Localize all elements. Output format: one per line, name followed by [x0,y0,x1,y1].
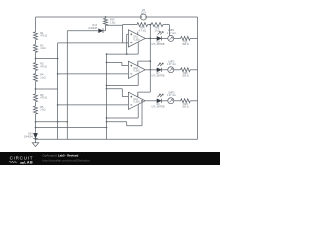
wire led3 to lamp3 [162,100,168,102]
diode D13 [99,29,103,33]
svg-text:12 V: 12 V [141,11,147,15]
wire bottom rail [36,138,198,140]
wire lamp3 to R03 [174,100,181,102]
wire op1 inverting input [58,42,129,44]
wire divider seg8 [35,128,37,133]
svg-text:OA1: OA1 [133,36,138,39]
node bus1 tapC [57,121,59,123]
svg-text:OA3: OA3 [133,98,138,101]
wire lamp2 to R02 [174,69,181,71]
resistor R5 470 Ω (divider) [34,94,38,102]
wire diode to bus2 [67,30,98,32]
svg-text:OpAmped | Lab5 - Revised: OpAmped | Lab5 - Revised [43,154,79,158]
svg-text:390 Ω: 390 Ω [182,106,189,109]
wire R02 to rail [190,69,197,71]
wire op1 output [145,37,157,39]
resistor R3 470 Ω (divider) [34,63,38,71]
svg-text:390 Ω: 390 Ω [182,75,189,78]
svg-text:1.67 mA: 1.67 mA [167,94,176,97]
svg-text:1N4448: 1N4448 [88,27,97,30]
wire op2 inverting input [58,73,129,75]
wire divider top [35,17,37,32]
wire cascade 1-2 [138,38,151,69]
op-amp OA1 [128,30,145,47]
resistor R05 1k (feedback b) [151,23,163,27]
voltage source V8 [140,14,146,20]
wire node X down [122,25,124,43]
node lower rail spine [35,127,37,129]
svg-text:http://circuitlab.com/circuit/: http://circuitlab.com/circuit/29mhpdcx [43,158,91,162]
svg-text:OA2: OA2 [133,67,138,70]
wire top rail right [146,16,197,18]
wire op3 output [145,100,157,102]
node bus1 op2minus [57,73,59,75]
wire op2 output [145,69,157,71]
svg-text:470 Ω: 470 Ω [40,96,47,100]
ground [35,139,37,143]
svg-text:UTL-3BTRB: UTL-3BTRB [151,75,164,78]
op-amp OA3 [128,92,145,109]
node op1 plus join [126,53,128,55]
wire cascade 2-3 [138,70,151,97]
node cascade vplus2 [149,60,151,62]
svg-text:4.7 kΩ: 4.7 kΩ [139,29,146,32]
led D8 [157,36,161,40]
lamp LMP1 [168,35,174,41]
node bus1 top corner [57,58,59,60]
led D7 [157,68,161,72]
wire tap C rail [36,121,68,123]
node cascade3 [149,69,151,71]
node feedback mid [149,24,151,26]
node bus3 lower rail [106,127,108,129]
node tapA bus [35,58,37,60]
resistor R1 470 Ω (divider) [34,32,38,40]
resistor R4 1 kΩ (divider) [34,74,38,82]
led D6 [157,99,161,103]
resistor R02 390 [181,68,191,72]
svg-text:UTL-3BTRB: UTL-3BTRB [151,43,164,46]
wire Ra-Rb link [148,24,151,26]
wire op1 noninverting input [127,34,129,54]
wire divider seg7 [35,122,37,128]
wire node X to Ra [123,24,138,26]
svg-text:1 kΩ: 1 kΩ [40,108,45,112]
resistor R07 1k (reference) [104,18,108,25]
wire right rail [197,17,199,139]
svg-text:1 kΩ: 1 kΩ [154,29,159,32]
svg-text:TL081: TL081 [133,71,140,73]
wire op3 vminus [107,105,139,119]
CircuitLab logo [9,156,34,165]
wire top rail left [36,16,141,18]
wire led1 to lamp1 [162,37,168,39]
wire R03 to rail [190,100,197,102]
wire tap B [36,88,58,90]
node bus2 tapC [66,121,68,123]
svg-text:470 Ω: 470 Ω [40,64,47,68]
wire divider seg4 [35,82,37,94]
wire op3 inverting input [58,104,129,106]
wire op1 vminus [107,42,139,54]
node bus3 op2vm [106,85,108,87]
wire diode to rail [35,138,37,141]
wire led2 to lamp2 [162,69,168,71]
wire bus 2 [66,31,68,140]
node top rail R07 [105,16,107,18]
wire R07 bottom to diode [103,25,106,30]
wire R07 bottom to node X [106,24,123,26]
node op3out [141,100,143,102]
node bus1 op3minus [57,104,59,106]
node row1 fb [149,38,151,40]
svg-text:1 kΩ: 1 kΩ [110,20,115,24]
svg-text:▬LAB: ▬LAB [20,161,33,165]
svg-text:TL081: TL081 [133,102,140,104]
wire divider seg6 [35,114,37,122]
wire feedback mid drop [149,25,151,39]
wire divider seg1 [35,40,37,45]
svg-text:1 kΩ: 1 kΩ [40,75,45,79]
resistor R04 4.7k (feedback a) [137,23,148,27]
wire divider seg3 [35,71,37,74]
wire bus 3 [106,54,108,139]
node tapC spine [35,121,37,123]
svg-text:1N4004: 1N4004 [24,135,33,138]
node bus3 z [106,121,108,123]
node bus3 op3plus [106,88,108,90]
wire Rb to lamp top [163,25,169,36]
svg-text:1.67 mA: 1.67 mA [167,32,176,35]
op-amp OA2 [128,61,145,78]
wire R01 to rail [190,37,197,39]
resistor R2 1 kΩ (divider) [34,44,38,52]
wire op2 noninverting path [107,62,129,65]
lamp LMP3 [168,98,174,104]
resistor R03 390 [181,99,191,103]
wire bus 1 [57,43,59,139]
node bus3 top [106,53,108,55]
resistor R6 1 kΩ (divider) [34,106,38,114]
svg-text:470 Ω: 470 Ω [40,34,47,38]
wire R07 top stub [105,17,107,18]
svg-text:TL081: TL081 [133,39,140,41]
lamp LMP2 [168,67,174,73]
wire op3 out return [107,101,143,126]
diode D14 (to ground) [33,133,37,138]
wire lower rail [36,127,107,129]
node bus3 op2plus [106,62,108,64]
wire divider seg2 [35,52,37,62]
node bus3 op3vm [106,117,108,119]
footer bar [0,152,220,165]
node rail gnd [35,138,37,140]
wire op3 noninverting path [107,89,129,97]
wire op2 vminus [107,74,139,86]
svg-text:1.67 mA: 1.67 mA [167,63,176,66]
wire tap A [36,58,58,60]
wire lamp1 to R01 [174,37,181,39]
wire divider seg5 [35,102,37,106]
resistor R01 390 [181,36,191,40]
svg-text:UTL-3BTRB: UTL-3BTRB [151,106,164,109]
svg-text:1 kΩ: 1 kΩ [40,46,45,50]
svg-text:390 Ω: 390 Ω [182,43,189,46]
